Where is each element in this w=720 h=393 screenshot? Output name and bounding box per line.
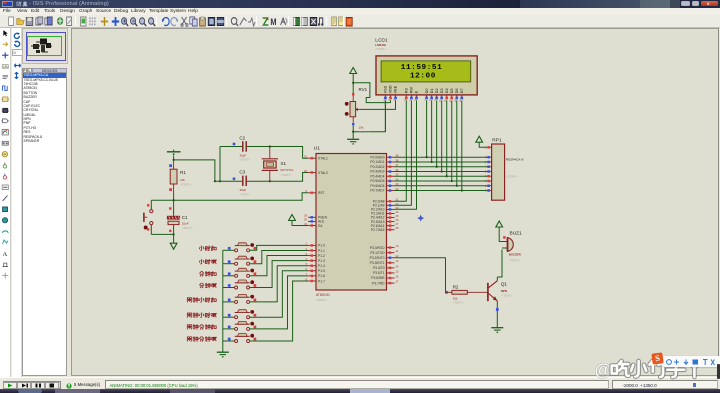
svg-text:A: A <box>2 251 7 258</box>
svg-text:M: M <box>270 17 276 27</box>
svg-text:LBL: LBL <box>3 65 9 69</box>
